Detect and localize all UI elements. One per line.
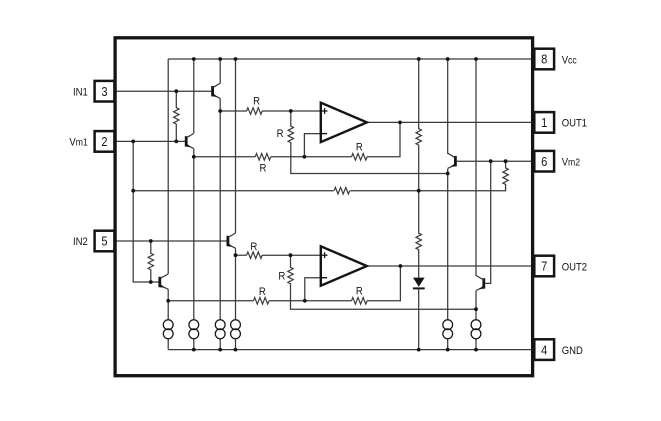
pin 6 Vm2 xyxy=(534,151,554,172)
svg-text:8: 8 xyxy=(541,52,547,67)
wire current source I1 to ground rail xyxy=(167,339,169,350)
svg-text:Vcc: Vcc xyxy=(562,55,577,67)
junction U2 inverting node xyxy=(303,299,307,303)
wire U2 inverting input route xyxy=(305,278,321,301)
svg-text:IN2: IN2 xyxy=(73,237,88,249)
svg-text:R: R xyxy=(356,142,363,154)
junction IN2 / bias resistor xyxy=(149,239,153,243)
wire lower bias resistor to diode D1 xyxy=(418,249,420,278)
pin 8 Vcc xyxy=(534,49,554,70)
junction Q4 base node xyxy=(149,280,153,284)
wire U1 output to OUT1 pin xyxy=(367,121,535,123)
wire Q2 emitter line to inverting chain of U1 xyxy=(194,156,255,158)
wire divider resistor of U1 + input down to Q3 emitter xyxy=(290,111,292,127)
wire mid line to bias node xyxy=(350,190,478,192)
current source pair at x=447.7 xyxy=(443,320,453,330)
transistor Q5 xyxy=(226,236,229,246)
wire current source I2 to ground rail xyxy=(193,339,195,350)
svg-text:3: 3 xyxy=(101,84,107,99)
junction U2 output feedback xyxy=(399,264,403,268)
junction top rail / Q3 rail xyxy=(446,57,450,61)
resistor R (feedback of U2) xyxy=(352,298,368,305)
junction ground rail / diode chain xyxy=(417,348,421,352)
junction Q6 emitter node xyxy=(474,307,478,311)
wire bias resistor to mid node xyxy=(418,145,420,191)
wire resistor bottom to mid line xyxy=(478,184,506,191)
junction U1 inverting node xyxy=(303,155,307,159)
svg-text:R: R xyxy=(260,163,267,175)
junction top rail / Q1 rail xyxy=(218,57,222,61)
junction Vm2 / Q6 base rail xyxy=(489,159,493,163)
svg-text:7: 7 xyxy=(541,259,547,274)
transistor Q1 xyxy=(211,86,214,96)
wire left rail from top-left corner down to Q4 collector xyxy=(167,59,169,274)
wire divider bottom to Q3 emitter node xyxy=(291,142,448,173)
resistor R (Vm side of U2 inverting divider) xyxy=(253,298,269,305)
junction Vm1 / left rail xyxy=(131,140,135,144)
wire divider resistor of U2 + input xyxy=(290,255,292,268)
transistor Q3 xyxy=(454,156,457,166)
svg-text:R: R xyxy=(253,96,260,108)
wire IN2 pin to Q5 base xyxy=(113,240,227,242)
junction Q1 emitter node xyxy=(218,109,222,113)
current source pair at x=220.2 xyxy=(215,320,225,330)
op-amp U1 minus sign xyxy=(322,133,327,135)
wire rail Q3 collector from Vcc rail xyxy=(447,59,449,154)
junction ground rail / Q3 rail xyxy=(446,348,450,352)
op-amp U2 plus sign xyxy=(322,254,328,256)
wire Q6 emitter down to current source I6 xyxy=(475,291,477,320)
wire GND bottom rail xyxy=(168,349,534,351)
wire between inverting resistors of U2 xyxy=(269,300,352,302)
svg-text:R: R xyxy=(278,271,285,283)
wire between inverting resistors of U1 xyxy=(271,156,352,158)
wire current source I4 to ground rail xyxy=(235,339,237,350)
svg-text:R: R xyxy=(356,286,363,298)
wire Vm2 node down to Q6 base xyxy=(485,161,491,283)
resistor R (IN2 input) xyxy=(247,252,263,259)
pin 4 GND xyxy=(534,339,554,360)
resistor R (Vm1 side of U1 inverting divider) xyxy=(255,154,271,161)
wire Q5 emitter rail down to current source I4 xyxy=(235,248,237,320)
wire Vm1 pin to Q2 base xyxy=(113,140,185,142)
svg-text:Vm1: Vm1 xyxy=(69,137,87,149)
wire current source I3 to ground rail xyxy=(219,339,221,350)
wire Q1 emitter line to op-amp U1 non-inverting input, with resistor xyxy=(220,110,247,112)
junction top rail / Q6 rail xyxy=(474,57,478,61)
wire divider bottom to Q6 emitter node xyxy=(291,283,477,309)
wire resistor to + input node of U2 xyxy=(262,254,321,256)
junction Q4 emitter node xyxy=(166,299,170,303)
op-amp U1 xyxy=(321,103,367,142)
wire resistor bottom to Vm1 line node xyxy=(175,124,177,142)
wire IN1 node down through resistor to Vm1 line xyxy=(175,91,177,108)
junction top rail / bias chain xyxy=(417,57,421,61)
resistor (IN2 bias) xyxy=(148,253,153,270)
wire current source I5 to ground rail xyxy=(447,339,449,350)
junction ground rail / Q1 rail xyxy=(218,348,222,352)
junction Vm2 / pull resistor xyxy=(504,159,508,163)
svg-text:IN1: IN1 xyxy=(73,87,88,99)
svg-text:4: 4 xyxy=(541,342,547,357)
junction Q2 emitter node xyxy=(192,155,196,159)
junction mid line / Vm1 rail xyxy=(131,189,135,193)
resistor R (feedback of U1) xyxy=(352,154,368,161)
junction ground rail / Q5 rail xyxy=(234,348,238,352)
wire Q5 emitter to op-amp U2 non-inverting input xyxy=(236,254,247,256)
svg-text:R: R xyxy=(259,286,266,298)
junction top rail / Q5 rail xyxy=(234,57,238,61)
wire Q4 emitter line to inverting chain of U2 xyxy=(168,300,253,302)
wire IN1 pin to Q1 base xyxy=(113,90,211,92)
resistor (mid line) xyxy=(334,187,350,194)
resistor R (U2 non-inverting divider) xyxy=(288,267,293,284)
wire U1 inverting input route xyxy=(304,134,320,157)
wire Q1 emitter rail down to current source I3 xyxy=(219,98,221,319)
svg-text:R: R xyxy=(250,241,257,253)
wire Vcc top rail xyxy=(168,58,534,60)
wire U2 output to OUT2 pin xyxy=(367,265,535,267)
svg-text:OUT1: OUT1 xyxy=(562,118,588,130)
junction U2 + divider node xyxy=(289,253,293,257)
wire resistor bottom to Q4 base line node xyxy=(150,269,152,282)
wire long mid line from Vm1 rail xyxy=(133,190,334,192)
svg-text:5: 5 xyxy=(101,234,107,249)
current source pair at x=476.0 xyxy=(471,320,481,330)
wire IN2 node down through resistor to Q4 base line xyxy=(150,241,152,254)
wire diode cathode to ground rail xyxy=(418,289,420,349)
IC package outline xyxy=(115,38,532,376)
wire feedback resistor to U1 output node xyxy=(367,122,400,156)
junction mid line / bias chain xyxy=(417,189,421,193)
svg-text:6: 6 xyxy=(541,154,547,169)
wire mid node down to Q4 base corner xyxy=(133,191,160,282)
svg-text:OUT2: OUT2 xyxy=(562,262,588,274)
transistor Q2 xyxy=(185,136,188,146)
junction U1 output feedback xyxy=(398,121,402,125)
pin 3 IN1 xyxy=(95,81,115,102)
junction ground rail / Q2 rail xyxy=(192,348,196,352)
junction IN1 / bias resistor xyxy=(174,89,178,93)
svg-text:R: R xyxy=(277,129,284,141)
resistor (bias lower) xyxy=(416,233,421,250)
wire rail Q1 collector to Vcc rail xyxy=(219,59,221,83)
op-amp U2 xyxy=(321,246,367,285)
wire Q3 emitter down to current source I5 xyxy=(447,169,449,320)
wire Q4 emitter rail down to current source xyxy=(167,289,169,320)
svg-text:2: 2 xyxy=(101,134,107,149)
wire rail Q5 collector to Vcc rail xyxy=(235,59,237,233)
svg-text:GND: GND xyxy=(562,345,583,357)
wire resistor to + input node of U1 xyxy=(262,110,321,112)
current source pair at x=193.8 xyxy=(189,320,199,330)
op-amp U2 minus sign xyxy=(322,277,327,279)
wire Q3 base to Vm2 pin xyxy=(457,160,535,162)
junction top rail / Q2 rail xyxy=(192,57,196,61)
pin 1 OUT1 xyxy=(534,112,554,133)
resistor R (U1 non-inverting divider) xyxy=(288,126,293,142)
junction Q5 emitter node xyxy=(234,253,238,257)
pin 5 IN2 xyxy=(95,231,115,252)
junction Vm1 / bias resistor xyxy=(174,140,178,144)
transistor Q4 xyxy=(158,277,161,287)
resistor (Vm2 to mid line) xyxy=(503,168,508,185)
current source pair at x=168.2 xyxy=(163,320,173,330)
wire Q2 emitter rail down to current source I2 xyxy=(193,149,195,320)
wire rail Q2 collector to Vcc rail xyxy=(193,59,195,133)
op-amp U1 plus sign xyxy=(322,110,328,112)
resistor R (IN1 input) xyxy=(247,108,263,115)
resistor (bias upper) xyxy=(416,129,421,146)
svg-text:Vm2: Vm2 xyxy=(562,157,580,169)
diode D1 xyxy=(413,278,425,287)
junction ground rail / Q6 rail xyxy=(474,348,478,352)
wire mid node down to lower bias resistor xyxy=(418,191,420,234)
transistor Q6 xyxy=(482,278,485,288)
pin 7 OUT2 xyxy=(534,256,554,277)
wire Vcc rail down to bias resistor chain xyxy=(418,59,420,129)
junction Q3 emitter node xyxy=(446,172,450,176)
wire current source I6 to ground rail xyxy=(475,339,477,350)
wire Vm2 node to pull resistor xyxy=(505,161,507,168)
pin 2 Vm1 xyxy=(95,131,115,152)
wire rail Q6 collector from Vcc rail xyxy=(475,59,477,276)
resistor (IN1 bias) xyxy=(174,108,179,125)
wire feedback resistor to U2 output node xyxy=(367,266,400,301)
current source pair at x=235.5 xyxy=(231,320,241,330)
junction U1 + divider node xyxy=(289,109,293,113)
wire Vm1 node down to mid line node xyxy=(132,141,134,190)
svg-text:1: 1 xyxy=(541,115,547,130)
